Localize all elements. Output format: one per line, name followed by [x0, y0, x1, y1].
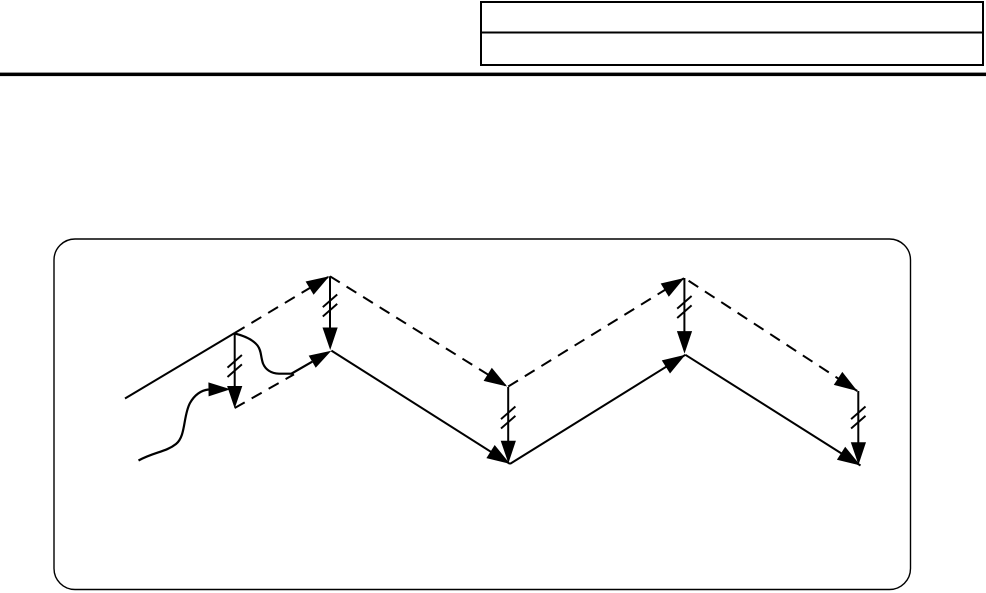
node E: right mid valley vertical connector with hatch marks and down arrow: [851, 391, 866, 465]
wire: dashed line big peak 2 down to right mid valley with arrow: [684, 278, 857, 391]
wire: solid cutting line junction2 down to valley2 with arrow: [685, 355, 860, 466]
leader: upper wavy callout line from peak1 with arrow to junction1: [235, 334, 332, 374]
wire: dashed line big peak 1 down to mid valley with arrow: [330, 276, 507, 386]
wire: dashed rapid line peak1 to big peak 1 with arrow: [235, 276, 330, 333]
wire: dashed retract segment from bottom of first connector: [235, 374, 294, 408]
node A: first peak vertical connector with hatch marks and down arrow: [227, 333, 242, 409]
leader: lower wavy callout line with right-pointing arrow: [139, 382, 231, 460]
figure frame: rounded rectangle border: [54, 239, 911, 590]
node B: big peak 1 vertical connector with hatch marks and down arrow: [323, 276, 338, 350]
node D: big peak 2 vertical connector with hatch marks and down arrow: [677, 278, 692, 354]
node C: mid valley vertical connector with hatch marks and down arrow: [501, 387, 516, 463]
wire: solid cutting line junction1 to valley1 with arrow: [331, 351, 510, 464]
wire: solid cutting line valley1 up to junction2 with arrow: [510, 355, 685, 464]
wire: solid approach line into first peak: [125, 333, 235, 399]
horizontal rule: thick page-wide separator: [0, 73, 986, 77]
wire: dashed line mid valley up to big peak 2 with arrow: [508, 278, 684, 387]
header table: empty two-row box top right: [480, 2, 984, 65]
